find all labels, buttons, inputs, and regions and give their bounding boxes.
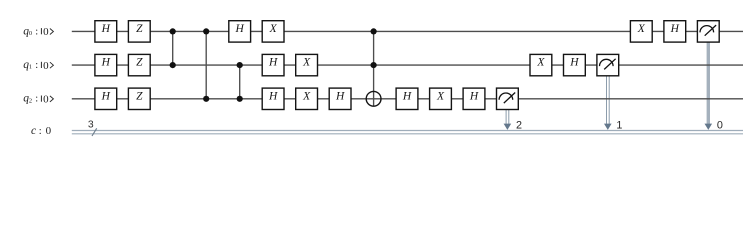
svg-text:Z: Z (136, 23, 143, 35)
measure gate q1 col15 (597, 54, 619, 75)
H gate q2 col0 (95, 88, 117, 109)
H gate q0 col4 (229, 21, 251, 42)
svg-text:0: 0 (717, 120, 723, 132)
svg-text:0: 0 (43, 94, 49, 106)
measure arrow q2 -> c2 (504, 109, 512, 130)
X gate q2 col6 (296, 88, 318, 109)
svg-text:1: 1 (616, 120, 622, 132)
X gate q2 col10 (430, 88, 452, 109)
CZ control dot q0 col3 (203, 28, 209, 34)
svg-text:X: X (302, 90, 311, 102)
H gate q0 col17 (664, 21, 686, 42)
CZ connector col2 (q0-q1) (172, 31, 174, 65)
svg-text:H: H (235, 23, 245, 35)
svg-text:H: H (101, 90, 111, 102)
svg-text:H: H (569, 57, 579, 69)
measure arrow q1 -> c1 (604, 75, 612, 130)
svg-text:c: c (31, 125, 36, 137)
wire q0 (72, 30, 743, 32)
CZ control dot q0 col2 (170, 28, 176, 34)
label c : 0 (31, 125, 52, 137)
svg-text:H: H (335, 90, 345, 102)
wire q2 (72, 98, 743, 100)
svg-text::: : (35, 26, 38, 37)
CZ connector col3 (q0-q2) (205, 31, 207, 98)
X gate q0 col16 (630, 21, 652, 42)
H gate q0 col0 (95, 21, 117, 42)
CCX target XOR circle q2 (366, 91, 381, 106)
label q0 : |0> (23, 25, 53, 38)
label q2 : |0> (23, 93, 53, 106)
svg-text:X: X (302, 57, 311, 69)
svg-text:2: 2 (29, 97, 32, 104)
svg-text:H: H (268, 57, 278, 69)
CZ control dot q2 col3 (203, 96, 209, 102)
CCX control dot q0 (371, 28, 377, 34)
H gate q1 col14 (564, 54, 586, 75)
X gate q0 col5 (262, 21, 284, 42)
svg-text:X: X (269, 23, 278, 35)
CCX connector col8 (373, 31, 375, 106)
svg-text:Z: Z (136, 57, 143, 69)
svg-text:H: H (670, 23, 680, 35)
label q1 : |0> (23, 59, 53, 72)
svg-text:H: H (101, 23, 111, 35)
CCX control dot q1 (371, 62, 377, 68)
CZ connector col4 (q1-q2) (239, 65, 241, 99)
H gate q1 col5 (262, 54, 284, 75)
svg-text:H: H (402, 90, 412, 102)
svg-text:0: 0 (29, 30, 32, 37)
Z gate q2 col1 (128, 88, 150, 109)
svg-text:H: H (469, 90, 479, 102)
CZ control dot q1 col4 (237, 62, 243, 68)
label 0 (classical bit index) (717, 120, 723, 132)
svg-text:Z: Z (136, 90, 143, 102)
H gate q2 col5 (262, 88, 284, 109)
Z gate q1 col1 (128, 54, 150, 75)
svg-text:X: X (436, 90, 445, 102)
wire c (classical double line) (72, 131, 743, 134)
H gate q1 col0 (95, 54, 117, 75)
label 2 (classical bit index) (516, 120, 522, 132)
X gate q1 col13 (530, 54, 552, 75)
classical register size slash (92, 128, 97, 136)
svg-text:0: 0 (43, 60, 49, 72)
label 1 (classical bit index) (616, 120, 622, 132)
H gate q2 col7 (329, 88, 351, 109)
measure arrow q0 -> c0 (705, 41, 713, 130)
svg-text:0: 0 (43, 26, 49, 38)
H gate q2 col11 (463, 88, 485, 109)
measure gate q2 col12 (497, 88, 519, 109)
svg-text::: : (35, 60, 38, 71)
svg-text::: : (35, 94, 38, 105)
CZ control dot q1 col2 (170, 62, 176, 68)
svg-text:3: 3 (88, 120, 94, 131)
svg-text:H: H (268, 90, 278, 102)
svg-text:1: 1 (29, 64, 32, 71)
svg-text:2: 2 (516, 120, 522, 132)
svg-text:X: X (637, 23, 646, 35)
svg-text:H: H (101, 57, 111, 69)
svg-text:X: X (536, 57, 545, 69)
H gate q2 col9 (396, 88, 418, 109)
CZ control dot q2 col4 (237, 96, 243, 102)
X gate q1 col6 (296, 54, 318, 75)
label 3 (register width) (88, 120, 94, 131)
Z gate q0 col1 (128, 21, 150, 42)
measure gate q0 col18 (697, 21, 719, 42)
svg-text:0: 0 (46, 125, 52, 137)
svg-text::: : (39, 126, 42, 137)
wire q1 (72, 64, 743, 66)
